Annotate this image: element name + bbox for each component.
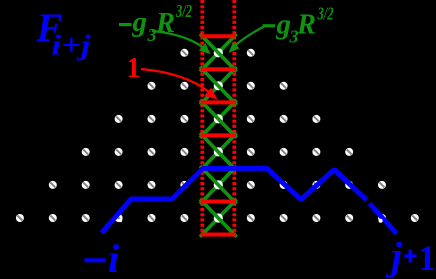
green arrow right bbox=[229, 27, 265, 54]
label -g3R^3/2 right bbox=[263, 4, 334, 47]
strip centre sites bbox=[214, 48, 223, 222]
lattice dots row 3 bbox=[82, 148, 354, 156]
lattice dots row 4 bbox=[49, 181, 386, 189]
label -i bbox=[84, 236, 119, 279]
strip dotted boundary right bbox=[232, 0, 236, 236]
svg-text:1: 1 bbox=[127, 53, 141, 84]
svg-text:R: R bbox=[296, 8, 316, 40]
label j+1 bbox=[385, 233, 436, 278]
svg-text:g: g bbox=[132, 6, 148, 38]
lattice dots row 5 bbox=[16, 214, 419, 222]
red rungs bbox=[201, 36, 236, 234]
svg-text:3: 3 bbox=[147, 25, 157, 45]
lattice dots row 2 bbox=[115, 115, 321, 123]
green crosses under-diagonals bbox=[200, 34, 237, 237]
svg-text:R: R bbox=[155, 7, 175, 39]
lattice dots row 0 bbox=[180, 49, 254, 57]
svg-text:3/2: 3/2 bbox=[317, 4, 334, 24]
strip dotted boundary left bbox=[200, 0, 204, 236]
lattice dots row 1 bbox=[148, 82, 288, 90]
svg-text:3/2: 3/2 bbox=[175, 1, 192, 21]
red arrow bbox=[141, 69, 218, 100]
green arrow left bbox=[152, 31, 211, 54]
green crosses over-diagonals bbox=[200, 34, 237, 237]
blue domain-wall path bbox=[102, 168, 397, 233]
svg-text:i+j: i+j bbox=[52, 31, 91, 62]
svg-text:i: i bbox=[108, 236, 119, 279]
svg-text:1: 1 bbox=[418, 238, 436, 278]
label -g3R^3/2 left bbox=[119, 1, 192, 45]
